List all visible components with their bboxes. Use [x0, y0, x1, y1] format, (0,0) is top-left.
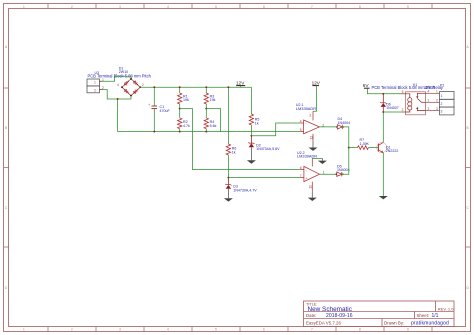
- wire U3 pin1 to bridge AC top: [102, 76, 132, 81]
- svg-text:5: 5: [215, 328, 217, 332]
- resistor R3: [204, 87, 208, 108]
- svg-text:P1: P1: [440, 83, 444, 87]
- junction R1/R2: [179, 108, 181, 110]
- wire relay pin4 to P1 pin1: [426, 92, 440, 94]
- wire D5 to junction: [342, 148, 349, 175]
- bridge rectifier D1: [122, 79, 140, 96]
- frame zone ticks bottom: [48, 327, 432, 332]
- junction R2 bottom: [179, 131, 181, 133]
- ground below D3: [224, 198, 233, 201]
- svg-text:6V: 6V: [363, 83, 370, 88]
- svg-text:3: 3: [436, 107, 438, 111]
- svg-text:2: 2: [71, 328, 73, 332]
- wire bridge negative drop to bottom rail: [117, 99, 119, 132]
- svg-text:5: 5: [300, 128, 302, 132]
- svg-text:7: 7: [311, 5, 313, 9]
- wire U2.1 output to D4: [319, 126, 337, 128]
- resistor R2: [178, 109, 182, 132]
- frame zone ticks top: [48, 4, 432, 9]
- diode D5: [337, 172, 342, 176]
- junction D4/D5/R7: [348, 147, 350, 149]
- svg-text:2N2222: 2N2222: [386, 149, 399, 153]
- svg-text:New Schematic: New Schematic: [308, 306, 353, 313]
- wire 12V to U2.1 pin3: [313, 86, 317, 112]
- svg-text:7: 7: [300, 174, 302, 178]
- resistor R7: [349, 146, 378, 150]
- power flag 6V: [363, 83, 370, 88]
- svg-text:1: 1: [23, 328, 25, 332]
- ground at U2.2 top: [318, 158, 327, 164]
- diode D4: [337, 125, 342, 129]
- ground U2.1 pin4: [309, 142, 318, 151]
- title block text: [306, 303, 454, 327]
- svg-text:REV. 1.0: REV. 1.0: [438, 307, 454, 312]
- junction R3 top: [205, 86, 207, 88]
- wire relay pin1 to P1 pin2: [426, 101, 440, 103]
- wire R3/R4 tap to bottom rail elbow: [206, 109, 220, 132]
- junction C1 bottom: [153, 131, 155, 133]
- svg-text:4: 4: [167, 5, 169, 9]
- resistor R6: [226, 144, 230, 178]
- wire U2.2 power pin to ground: [312, 157, 322, 159]
- svg-text:LM339ADR: LM339ADR: [296, 106, 316, 111]
- frame zone ticks left: [4, 88, 9, 247]
- svg-text:19k: 19k: [183, 98, 189, 102]
- svg-text:3: 3: [119, 5, 121, 9]
- svg-text:6: 6: [263, 5, 265, 9]
- ground below D2: [247, 160, 256, 163]
- svg-text:19k: 19k: [210, 98, 216, 102]
- wire 6V to relay pin5: [367, 88, 401, 94]
- svg-text:8: 8: [359, 328, 361, 332]
- wire Q1 collector up: [382, 112, 384, 142]
- wire top positive rail: [140, 86, 251, 88]
- junction D6 bottom: [382, 111, 384, 113]
- wire D4 to junction: [342, 127, 349, 148]
- wire U3 pin2 to bridge AC bottom: [102, 90, 132, 100]
- wire R6/D3 ref to U2.2 pin7: [228, 177, 300, 179]
- terminal block P1: [440, 92, 455, 115]
- wire bottom negative rail: [118, 131, 301, 133]
- resistor R4: [204, 109, 208, 132]
- svg-text:EasyEDA V5.7.26: EasyEDA V5.7.26: [306, 320, 341, 325]
- ground Q1 emitter: [379, 196, 388, 199]
- svg-text:1k: 1k: [255, 121, 259, 125]
- svg-text:B: B: [467, 126, 469, 130]
- wire 12V branch down to R6: [227, 87, 229, 144]
- svg-text:6: 6: [263, 328, 265, 332]
- svg-text:Date:: Date:: [306, 313, 317, 318]
- frame zone ticks right: [466, 88, 471, 247]
- svg-text:3: 3: [309, 113, 311, 117]
- svg-text:5.6k: 5.6k: [210, 124, 217, 128]
- svg-text:12: 12: [309, 185, 313, 189]
- svg-text:1: 1: [94, 80, 96, 84]
- svg-text:1.39K: 1.39K: [360, 142, 370, 146]
- svg-text:7: 7: [311, 328, 313, 332]
- capacitor C1: [148, 87, 157, 131]
- svg-text:Drawn By:: Drawn By:: [384, 320, 404, 325]
- svg-text:4: 4: [300, 119, 302, 123]
- junction D6 top: [382, 93, 384, 95]
- svg-text:1N4730A,4.7V: 1N4730A,4.7V: [233, 188, 257, 192]
- op-amp U2.2: [300, 158, 325, 191]
- junction R6/D3: [227, 177, 229, 179]
- svg-text:4.7k: 4.7k: [183, 124, 190, 128]
- terminal block U3: [87, 78, 104, 93]
- svg-text:2: 2: [71, 5, 73, 9]
- svg-text:470uF: 470uF: [160, 109, 171, 113]
- zener diode D6: [380, 94, 386, 112]
- svg-text:pratikmundagod: pratikmundagod: [411, 320, 449, 326]
- svg-text:2: 2: [94, 88, 96, 92]
- ground U2.2 pin4: [308, 192, 317, 201]
- wire D2 ref to U2.1 pin4: [251, 123, 300, 136]
- relay/P1 pin number labels: [436, 90, 438, 111]
- svg-text:Sheet:: Sheet:: [417, 313, 430, 318]
- svg-text:1: 1: [441, 94, 443, 98]
- op-amp U2.1: [300, 111, 325, 142]
- svg-text:1: 1: [436, 90, 438, 94]
- zener diode D2: [248, 136, 254, 161]
- wire Q1 emitter down: [382, 153, 384, 196]
- wire D6 to relay pin2: [383, 111, 401, 113]
- junction at negative drop: [117, 98, 119, 100]
- svg-text:1N4007: 1N4007: [386, 106, 399, 110]
- svg-text:4: 4: [117, 83, 119, 87]
- svg-text:3: 3: [119, 328, 121, 332]
- svg-text:5: 5: [402, 90, 404, 94]
- junction R3/R4: [205, 108, 207, 110]
- svg-text:8: 8: [359, 5, 361, 9]
- wire R1/R2 tap to U2.2 pin6: [180, 109, 301, 170]
- svg-text:B: B: [5, 126, 7, 130]
- svg-text:9: 9: [407, 5, 409, 9]
- svg-text:2: 2: [142, 83, 144, 87]
- junction C1 top: [153, 86, 155, 88]
- svg-text:2: 2: [436, 99, 438, 103]
- svg-text:2018-09-16: 2018-09-16: [326, 313, 353, 319]
- svg-text:1N4004: 1N4004: [338, 121, 351, 125]
- power flag 12V left: [236, 80, 245, 87]
- svg-text:4: 4: [167, 328, 169, 332]
- svg-text:+: +: [148, 103, 150, 107]
- svg-text:2: 2: [402, 108, 404, 112]
- svg-text:6: 6: [300, 166, 302, 170]
- resistor R1: [178, 87, 182, 108]
- svg-text:1N4004: 1N4004: [337, 168, 350, 172]
- junction 12V branch: [227, 86, 229, 88]
- relay K1: [402, 90, 430, 115]
- power flag 12V right: [312, 80, 321, 85]
- svg-text:1: 1: [23, 5, 25, 9]
- resistor R5: [249, 87, 253, 136]
- svg-text:1k: 1k: [232, 150, 236, 154]
- svg-text:9: 9: [407, 328, 409, 332]
- title block: [304, 301, 455, 327]
- wire relay pin3 to P1 pin3: [426, 110, 440, 112]
- svg-text:1/1: 1/1: [432, 313, 439, 319]
- svg-text:12V: 12V: [312, 80, 321, 85]
- svg-text:12V: 12V: [236, 80, 245, 85]
- svg-text:2: 2: [441, 102, 443, 106]
- svg-text:5: 5: [215, 5, 217, 9]
- svg-text:3: 3: [441, 110, 443, 114]
- wire U2.2 output to D5: [320, 173, 337, 175]
- svg-text:LM339ADR: LM339ADR: [297, 154, 317, 159]
- transistor Q1: [377, 142, 387, 152]
- svg-text:2W10: 2W10: [119, 70, 128, 74]
- junction R5/D2: [250, 135, 252, 137]
- svg-text:1N4734A,5.6V: 1N4734A,5.6V: [256, 147, 280, 151]
- svg-text:12: 12: [309, 136, 313, 140]
- junction R4 bottom: [205, 131, 207, 133]
- junction R1 top: [179, 86, 181, 88]
- zener diode D3: [225, 178, 231, 199]
